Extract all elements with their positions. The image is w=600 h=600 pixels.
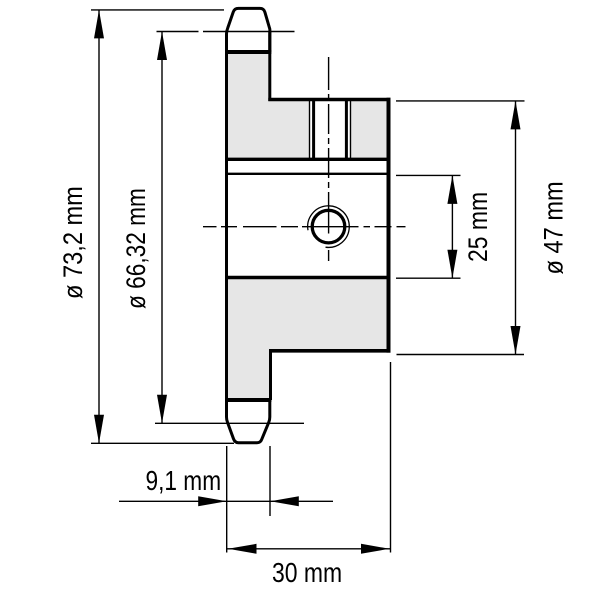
dim ø73,2: top arrow: [94, 10, 104, 39]
dim ø73,2: top extension line: [91, 9, 224, 11]
dim ø66,32: top extension line: [157, 31, 199, 33]
hub step vertical: [269, 349, 272, 400]
dim 9,1: left extension line: [226, 446, 228, 553]
plate left edge: [225, 50, 228, 402]
dim 30: right arrow: [361, 544, 390, 554]
dim ø66,32: dimension line: [161, 32, 163, 424]
plate top edge: [225, 50, 271, 54]
sprocket upper body gray fill: [227, 52, 389, 159]
svg-text:30 mm: 30 mm: [272, 558, 342, 588]
dim ø73,2: dimension line: [98, 10, 100, 443]
svg-text:25 mm: 25 mm: [463, 192, 493, 262]
svg-text:9,1 mm: 9,1 mm: [146, 466, 222, 497]
dim 25: top arrow: [447, 175, 457, 204]
bottom tooth: [227, 400, 270, 443]
dim 25: bottom arrow: [447, 250, 457, 279]
svg-text:ø 66,32 mm: ø 66,32 mm: [121, 188, 151, 309]
dim ø47: top arrow: [511, 101, 521, 129]
set screw hole white slot: [309, 97, 351, 160]
dim 9,1: left arrow: [198, 496, 227, 506]
hub bottom edge: [269, 349, 391, 353]
dim ø47: dimension line: [515, 101, 517, 355]
hub right edge: [387, 98, 391, 353]
sprocket lower body gray fill: [227, 278, 389, 401]
set screw hole left wall: [312, 100, 315, 160]
dim 30: right extension line: [390, 362, 392, 553]
dim ø47: bottom extension line: [397, 354, 525, 356]
bore bottom line: [227, 276, 389, 280]
dim ø66,32: bottom extension line: [155, 422, 304, 424]
set screw hole right wall: [345, 100, 348, 160]
plate right edge: [268, 32, 271, 102]
horizontal centerline: [203, 226, 406, 228]
bore top line: [227, 173, 389, 175]
dim 30: dimension line: [227, 548, 391, 550]
dim ø66,32: top arrow: [157, 32, 167, 61]
top tooth: [227, 8, 270, 52]
dim 9,1: right extension line: [269, 446, 271, 516]
dim ø73,2: bottom extension line: [91, 442, 234, 444]
dim 9,1: right arrow: [270, 496, 299, 506]
dim 25: top extension line: [396, 174, 461, 176]
dim ø47: top extension line: [396, 100, 525, 102]
set screw hole circle: [312, 210, 345, 243]
thread line right: [350, 101, 352, 160]
dim ø73,2: bottom arrow: [94, 415, 104, 444]
hub top edge: [268, 98, 390, 102]
dim 25: bottom extension line: [396, 277, 461, 279]
dim ø47: bottom arrow: [511, 326, 521, 355]
svg-text:ø 47 mm: ø 47 mm: [539, 181, 569, 274]
vertical centerline: [328, 57, 330, 261]
dim 30: left arrow: [228, 544, 257, 554]
dim 9,1: dimension line: [119, 500, 333, 502]
dim ø66,32: bottom arrow: [157, 395, 167, 424]
plate bottom edge: [225, 398, 271, 402]
dim 25: dimension line: [451, 175, 453, 278]
thread arc: [308, 206, 350, 248]
dim ø66,32: top pitch line over tooth: [203, 31, 295, 33]
keyway top line: [227, 158, 389, 161]
svg-text:ø 73,2 mm: ø 73,2 mm: [59, 186, 89, 299]
thread line left: [309, 101, 311, 160]
